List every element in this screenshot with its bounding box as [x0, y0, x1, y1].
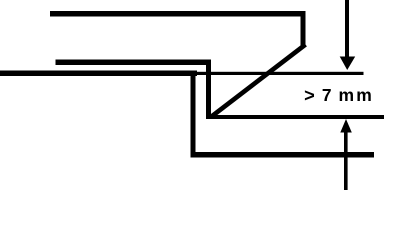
down arrow shaft — [345, 0, 349, 58]
dimension label "> 7 mm" — [304, 85, 372, 105]
svg-text:7: 7 — [322, 85, 332, 105]
svg-text:>: > — [304, 85, 315, 105]
middle sheet step vertical — [206, 60, 211, 120]
svg-text:m: m — [339, 85, 355, 105]
down arrow head — [340, 57, 356, 71]
up arrow head — [340, 119, 352, 133]
lower sheet top edge line — [0, 71, 197, 77]
upper sheet top edge line — [50, 11, 306, 17]
upper sheet diagonal end face — [212, 45, 306, 117]
upper dimension reference line — [195, 72, 364, 75]
upper sheet right end vertical — [301, 11, 306, 46]
middle sheet lower horizontal edge — [206, 115, 384, 119]
up arrow shaft — [344, 131, 348, 190]
middle sheet top edge line — [56, 60, 212, 66]
lower sheet step vertical — [191, 71, 196, 158]
svg-text:m: m — [356, 85, 372, 105]
lower sheet bottom horizontal edge — [191, 152, 375, 158]
